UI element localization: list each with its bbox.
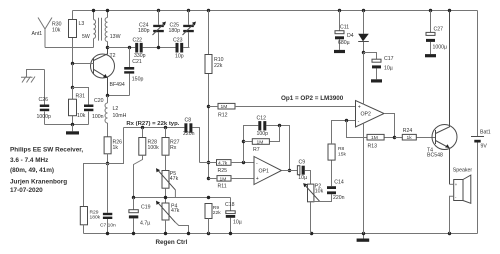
wire: right edge drop to battery: [477, 11, 479, 137]
svg-text:Philips EE SW Receiver,: Philips EE SW Receiver,: [10, 147, 83, 154]
svg-text:10k: 10k: [77, 113, 86, 119]
resistor R24 1k: [395, 137, 436, 139]
capacitor C17 10u: [364, 53, 377, 80]
capacitor C26 1000p: [44, 70, 46, 125]
resistor R25 4.7k: [207, 161, 210, 164]
svg-text:C21: C21: [132, 59, 142, 65]
svg-text:180p: 180p: [138, 28, 150, 34]
svg-text:L2: L2: [113, 106, 119, 112]
svg-text:Rx: Rx: [170, 145, 177, 151]
svg-text:10µ: 10µ: [384, 66, 393, 72]
svg-text:47k: 47k: [170, 176, 179, 182]
svg-text:R7: R7: [253, 147, 260, 153]
svg-text:13W: 13W: [110, 34, 121, 40]
svg-text:15k: 15k: [338, 152, 346, 158]
svg-text:+: +: [358, 104, 361, 110]
svg-text:Ant1: Ant1: [32, 31, 43, 37]
node: collector dot: [106, 46, 109, 49]
svg-text:C27: C27: [434, 27, 444, 33]
svg-text:180p: 180p: [169, 28, 181, 34]
capacitor C8 220n: [184, 123, 187, 132]
svg-text:47k: 47k: [171, 208, 180, 214]
transistor T2 BF494: [91, 54, 115, 78]
svg-text:C14: C14: [334, 179, 344, 185]
capacitor C20 100n: [73, 88, 89, 125]
wire: emitter node: [108, 95, 130, 97]
svg-text:10µ: 10µ: [233, 220, 242, 226]
svg-text:C11: C11: [340, 25, 349, 31]
ground bar (main): [363, 234, 365, 239]
resistor R10 22k: [208, 11, 210, 179]
transformer L3 left winding 5W: [93, 11, 95, 20]
potentiometer P4 47k: [162, 203, 169, 220]
svg-text:1000p: 1000p: [37, 114, 52, 120]
svg-text:330p: 330p: [134, 53, 146, 59]
svg-text:17-07-2020: 17-07-2020: [10, 187, 43, 194]
antenna Ant1: [38, 18, 52, 48]
wire: riser to Rx rail: [108, 128, 124, 164]
resistor R9 22k: [205, 204, 212, 219]
svg-text:1M: 1M: [371, 135, 378, 141]
svg-text:BC548: BC548: [427, 152, 443, 158]
svg-text:1M: 1M: [221, 104, 228, 110]
node: OP1 minus feedback tap: [242, 161, 245, 164]
svg-text:OP2: OP2: [361, 112, 371, 118]
resistor R30 10k: [72, 11, 74, 64]
svg-text:9V: 9V: [481, 144, 488, 150]
svg-text:R12: R12: [218, 113, 228, 119]
svg-text:220n: 220n: [333, 195, 345, 201]
resistor R28 100k: [141, 126, 144, 129]
wire: regen node left leg to R29: [84, 164, 108, 207]
svg-text:Bat1: Bat1: [480, 130, 491, 136]
svg-text:22k: 22k: [214, 63, 223, 69]
svg-text:4.7µ: 4.7µ: [140, 221, 150, 227]
svg-text:150p: 150p: [132, 77, 144, 83]
node: T2 base dot: [71, 62, 74, 65]
svg-text:C8: C8: [185, 118, 192, 124]
diode D4: [363, 11, 365, 53]
svg-text:+: +: [256, 176, 259, 182]
svg-text:C17: C17: [384, 56, 394, 62]
svg-text:OP1: OP1: [259, 169, 269, 175]
capacitor C18 10u: [230, 198, 232, 234]
resistor R12 1M: [207, 105, 210, 108]
svg-text:680µ: 680µ: [338, 40, 350, 46]
potentiometer P5 47k: [162, 171, 169, 189]
svg-text:10k: 10k: [315, 189, 324, 195]
svg-text:10k: 10k: [52, 28, 61, 34]
svg-text:C7 10n: C7 10n: [100, 223, 116, 229]
capacitor C12 100p: [258, 121, 261, 130]
svg-text:220n: 220n: [183, 131, 195, 137]
svg-text:-: -: [358, 119, 360, 125]
resistor R8 15k: [328, 144, 335, 160]
wire: ground bottom rail: [84, 233, 478, 235]
svg-text:T2: T2: [110, 53, 116, 59]
svg-text:22k: 22k: [213, 210, 221, 216]
svg-text:BF494: BF494: [110, 82, 125, 88]
wire: bottom node line + ground: [45, 124, 89, 126]
wire: OP2 V- to ground: [363, 124, 365, 234]
svg-text:R31: R31: [76, 94, 86, 100]
svg-text:R8: R8: [338, 146, 345, 152]
wire: OP2 output: [384, 114, 395, 138]
svg-text:1M: 1M: [257, 139, 264, 145]
capacitor C9 10u: [297, 166, 300, 175]
resistor R13 1M feedback: [347, 121, 395, 138]
wire: OP1 feedback loop: [244, 126, 290, 171]
wire: antenna to transformer: [45, 47, 94, 49]
resistor R7 1M: [242, 140, 245, 143]
svg-text:1k: 1k: [407, 135, 413, 141]
ground bar (base network): [66, 131, 79, 134]
svg-text:C20: C20: [94, 98, 104, 104]
svg-text:R13: R13: [368, 144, 378, 150]
svg-text:3.6 - 7.4 MHz: 3.6 - 7.4 MHz: [10, 157, 48, 164]
svg-text:1000µ: 1000µ: [433, 45, 448, 51]
svg-text:10p: 10p: [175, 54, 184, 60]
svg-text:C19: C19: [141, 205, 151, 211]
node: bottom rail dots: [106, 232, 451, 235]
svg-text:Op1 = OP2 = LM3900: Op1 = OP2 = LM3900: [281, 95, 344, 102]
wire: regen bus y=197.5: [134, 197, 231, 199]
svg-text:L3: L3: [79, 21, 85, 27]
svg-text:C23: C23: [173, 38, 183, 44]
resistor R26 1k: [104, 137, 111, 154]
capacitor C22 330p: [135, 43, 138, 53]
svg-text:180k: 180k: [90, 215, 101, 221]
wire: wiper to C14: [311, 194, 332, 201]
svg-text:(80m, 49, 41m): (80m, 49, 41m): [10, 167, 54, 174]
resistor R11 1M: [207, 177, 210, 180]
transformer L3 core: [99, 18, 102, 41]
svg-text:Jurjen Kranenborg: Jurjen Kranenborg: [10, 179, 67, 186]
variable capacitor C25 180p: [188, 11, 190, 48]
svg-text:R24: R24: [403, 128, 413, 134]
svg-text:100n: 100n: [92, 114, 104, 120]
svg-text:R11: R11: [218, 184, 227, 190]
wire: base divider: [72, 64, 74, 88]
svg-text:C26: C26: [39, 97, 49, 103]
op-amp OP2: [356, 101, 385, 128]
svg-text:100p: 100p: [257, 131, 269, 137]
resistor R29 180k: [80, 207, 87, 225]
svg-text:1M: 1M: [220, 176, 227, 182]
potentiometer P2 10k (volume): [308, 184, 314, 202]
capacitor C23 10p: [176, 43, 179, 53]
capacitor C14 220n: [327, 191, 336, 194]
svg-text:C18: C18: [225, 202, 235, 208]
svg-text:R25: R25: [218, 168, 228, 174]
inductor L2 10mH: [107, 96, 109, 104]
svg-text:C9: C9: [299, 160, 306, 166]
svg-text:C22: C22: [133, 38, 143, 44]
svg-text:4.7k: 4.7k: [218, 161, 228, 167]
variable capacitor C24 180p: [158, 11, 160, 48]
svg-text:-: -: [256, 161, 258, 167]
wire: OP1 output: [282, 171, 311, 185]
svg-text:D4: D4: [347, 33, 354, 39]
transformer L3 right winding 13W: [107, 11, 109, 18]
svg-text:Speaker: Speaker: [453, 168, 473, 174]
transistor T4 BC548: [432, 125, 457, 150]
capacitor C11 680u: [339, 11, 341, 50]
wire: Rx rail y=127.5: [124, 128, 200, 163]
svg-text:Regen Ctrl: Regen Ctrl: [156, 239, 188, 246]
earth ground (antenna side): [21, 77, 35, 83]
wire: OP2 V+: [363, 53, 365, 105]
svg-text:C12: C12: [257, 115, 267, 121]
wire: battery minus to bottom rail: [477, 143, 479, 234]
node: C21 tap dot: [128, 46, 131, 49]
svg-text:10mH: 10mH: [113, 113, 127, 119]
node: OP2 minus tap: [345, 119, 348, 122]
resistor R27 Rx: [164, 126, 167, 129]
svg-text:10µ: 10µ: [298, 175, 307, 181]
svg-text:Rx (R27) = 22k typ.: Rx (R27) = 22k typ.: [126, 121, 179, 127]
svg-text:1k: 1k: [113, 145, 119, 151]
capacitor C21 150p: [129, 48, 131, 96]
capacitor C27 1000u: [430, 11, 432, 55]
wire: +9V top rail: [73, 10, 478, 12]
wire: RF line y=47.5: [108, 47, 190, 49]
resistor R31 10k: [72, 88, 74, 125]
capacitor C19 4.7u: [133, 198, 135, 234]
battery Bat1 9V: [471, 136, 484, 138]
svg-text:100k: 100k: [148, 145, 160, 151]
svg-text:5W: 5W: [82, 34, 90, 40]
capacitor C7 10n: [107, 164, 109, 234]
node: top rail junction dots: [92, 9, 451, 12]
op-amp OP1: [254, 157, 282, 185]
